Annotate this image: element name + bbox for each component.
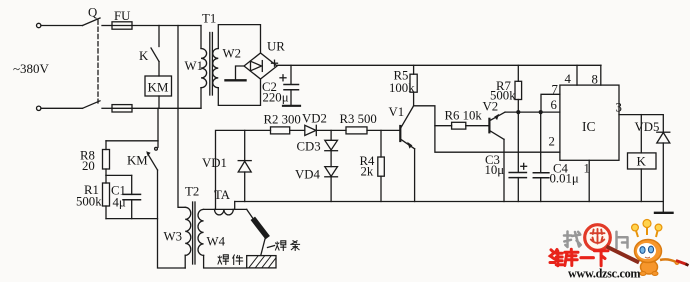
svg-text:VD2: VD2 <box>302 112 327 126</box>
wire top rail drop to contact K <box>158 26 160 47</box>
watermark 片 <box>617 232 628 248</box>
svg-text:7: 7 <box>552 83 559 97</box>
transformer T1 winding W1 <box>200 26 202 49</box>
resistor R3 <box>346 127 367 134</box>
resistor R5 <box>413 65 415 74</box>
resistor R6 <box>452 122 466 129</box>
fuse FU bottom <box>112 105 132 112</box>
wire VD2 to R3 <box>316 129 346 131</box>
wire R2 to VD2 <box>290 129 305 131</box>
switch Q top blade <box>83 18 101 26</box>
wire W4 bottom to workpiece <box>204 255 247 268</box>
current transformer TA bumps <box>215 209 234 215</box>
svg-text:K: K <box>139 49 149 63</box>
electrode tip wire <box>261 237 266 255</box>
svg-text:Q: Q <box>88 6 98 20</box>
wire Q to fuse FU bottom <box>102 107 112 109</box>
wire Q to fuse FU top <box>102 25 112 27</box>
op-amp timer IC box <box>560 85 619 160</box>
svg-text:~380V: ~380V <box>13 61 50 76</box>
svg-text:4μ: 4μ <box>113 196 126 210</box>
wire R3 to V1 base <box>367 129 400 131</box>
wire W4 top with TA bumps <box>204 208 247 210</box>
node pin7 C4 junction <box>539 110 543 114</box>
wire T2 primary feed from top rail <box>178 26 185 208</box>
svg-text:TA: TA <box>214 188 231 202</box>
wire bottom rail drop to KM main contact <box>157 108 159 147</box>
wire bridge left corner to ground <box>236 66 245 80</box>
diode VD1 <box>244 130 246 160</box>
diode VD2 <box>305 125 316 135</box>
svg-text:R6 10k: R6 10k <box>445 109 483 123</box>
svg-text:KM: KM <box>127 154 148 168</box>
C3 plus polarity mark <box>521 165 527 167</box>
contactor coil KM box <box>145 76 172 96</box>
svg-text:4: 4 <box>565 72 572 86</box>
svg-text:6: 6 <box>551 98 558 112</box>
transistor V2 <box>488 119 490 133</box>
wire KM contact down to W3 bottom <box>158 170 186 268</box>
node R7 C3 junction <box>516 110 520 114</box>
svg-text:T2: T2 <box>185 185 199 199</box>
contact KM blade arrow tick <box>146 151 150 156</box>
transformer T2 winding W3 <box>185 207 191 255</box>
wire pin1 to bottom rail <box>588 160 590 201</box>
transformer T1 winding W2 <box>218 25 260 53</box>
svg-text:0.01μ: 0.01μ <box>550 172 579 186</box>
wire V1 emitter to bottom rail <box>414 149 416 202</box>
transistor V1 <box>399 126 401 141</box>
wire bottom rail FU to T1 <box>132 107 201 109</box>
terminal circle top input <box>37 23 41 27</box>
diode VD4 <box>330 151 332 167</box>
svg-text:20: 20 <box>82 159 95 173</box>
wire TA secondary stub <box>234 202 236 210</box>
resistor R7 <box>517 65 519 81</box>
wire pin3 to relay K and VD5 <box>619 115 663 132</box>
wire pin7 bend <box>541 94 560 112</box>
svg-text:VD1: VD1 <box>202 156 227 170</box>
wire sense line from weld circuit up to R2 <box>216 130 271 209</box>
label 焊条 electrode <box>275 241 300 252</box>
svg-text:CD3: CD3 <box>297 140 321 154</box>
wire to electrode holder <box>247 209 254 220</box>
wire V1 collector node to pin2 corner <box>414 106 560 152</box>
capacitor C2 <box>290 65 292 84</box>
svg-text:10μ: 10μ <box>485 163 505 177</box>
svg-text:100k: 100k <box>389 81 415 95</box>
svg-text:W2: W2 <box>223 47 241 61</box>
resistor R8 <box>105 141 107 150</box>
watermark mascot <box>607 220 689 276</box>
resistor R2 <box>271 127 290 134</box>
svg-text:2: 2 <box>549 135 555 149</box>
svg-text:1: 1 <box>584 162 590 176</box>
transformer T1 core <box>209 33 211 96</box>
wire contact K to coil KM <box>158 62 160 77</box>
bridge rectifier UR diamond <box>244 53 277 79</box>
svg-text:2k: 2k <box>361 165 374 179</box>
wire pin4 <box>576 65 578 85</box>
bridge rectifier UR inner diode <box>251 61 262 71</box>
transformer T2 winding W4 <box>198 209 204 255</box>
svg-text:K: K <box>637 154 647 169</box>
capacitor C1 <box>131 175 133 194</box>
watermark 维库一下 <box>550 249 608 265</box>
svg-text:FU: FU <box>114 9 130 23</box>
svg-text:W3: W3 <box>164 230 182 244</box>
transformer T2 core <box>192 202 194 264</box>
wire R8 branch top <box>106 140 158 142</box>
svg-text:3: 3 <box>616 101 622 115</box>
wire bottom input to switch Q <box>41 107 83 109</box>
diode CD3 <box>330 130 332 140</box>
svg-text:220μ: 220μ <box>263 91 289 105</box>
wire positive rail bridge to pin8 corner <box>277 64 601 66</box>
watermark 找 <box>564 232 581 248</box>
svg-text:UR: UR <box>267 40 285 54</box>
svg-text:V1: V1 <box>389 105 405 119</box>
svg-text:R2 300: R2 300 <box>264 113 301 127</box>
svg-text:W4: W4 <box>207 235 226 249</box>
label 焊件 workpiece <box>218 255 243 266</box>
ground symbol bottom right <box>655 212 673 214</box>
capacitor C4 <box>540 112 542 172</box>
svg-text:VD5: VD5 <box>635 120 660 134</box>
contact K blade <box>151 48 159 62</box>
electrode holder solid bar <box>255 221 267 236</box>
svg-text:T1: T1 <box>202 12 216 26</box>
switch Q linkage dashed line <box>97 20 99 103</box>
ground bar at W2 bridge <box>226 79 246 81</box>
diode VD5 <box>657 131 670 133</box>
contact KM fixed terminal circle <box>155 147 158 150</box>
svg-text:500k: 500k <box>490 89 516 103</box>
terminal circle bottom input <box>37 106 41 110</box>
svg-text:VD4: VD4 <box>295 168 320 182</box>
wire R8 to R1 C1 junction <box>106 174 132 176</box>
resistor R1 <box>105 175 107 183</box>
workpiece hatched block <box>247 256 276 268</box>
bridge UR plus polarity mark <box>272 62 278 64</box>
svg-text:8: 8 <box>592 73 598 87</box>
ground bar at C2 <box>283 105 300 107</box>
svg-text:R3 500: R3 500 <box>340 112 377 126</box>
wire V2 collector to bottom rail <box>503 139 505 201</box>
switch Q bottom blade <box>83 101 101 109</box>
resistor R4 <box>380 130 382 157</box>
C2 plus polarity mark <box>280 77 286 79</box>
wire top rail FU to T1 <box>132 25 201 27</box>
fuse FU top <box>112 22 132 29</box>
svg-text:IC: IC <box>582 119 596 134</box>
label pointer to electrode <box>268 246 275 248</box>
wire pin6 line V2 emitter to IC <box>505 111 560 113</box>
relay K coil box <box>640 115 642 153</box>
wire R1 C1 bottom to KM contact line <box>106 218 158 220</box>
wire coil KM to bottom rail <box>158 96 160 108</box>
wire bottom common rail <box>235 201 664 203</box>
svg-text:W1: W1 <box>185 59 203 73</box>
svg-text:www.dzsc.com: www.dzsc.com <box>568 267 640 281</box>
wire R6 to V2 base <box>466 125 489 127</box>
svg-text:500k: 500k <box>76 195 102 209</box>
capacitor C3 <box>517 112 519 172</box>
wire pin8 <box>600 65 602 85</box>
watermark magnifier ring <box>585 225 611 251</box>
wire top input to switch Q <box>41 25 83 27</box>
svg-text:KM: KM <box>148 80 169 95</box>
contact KM main blade <box>148 154 158 171</box>
wire R6 branch <box>435 125 452 127</box>
